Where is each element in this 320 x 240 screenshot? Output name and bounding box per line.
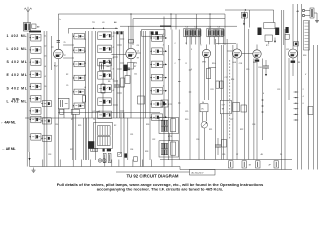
pilot lamp LP1 bbox=[98, 159, 102, 163]
ground symbol left end bbox=[32, 168, 36, 173]
wire bus x233 bbox=[232, 45, 234, 160]
svg-text:L3: L3 bbox=[84, 63, 86, 65]
wire bus x55 bbox=[54, 62, 56, 167]
svg-text:3: 3 bbox=[191, 49, 192, 51]
switch wiper arrow 6 bbox=[163, 103, 168, 105]
wire bus x262 bbox=[262, 59, 264, 141]
wire bus x289 bbox=[288, 58, 290, 100]
node tick x179 1 bbox=[178, 59, 180, 61]
switch S1 section 4 bbox=[29, 71, 41, 78]
svg-text:R27: R27 bbox=[70, 149, 73, 151]
switch wiper arrow 2 bbox=[163, 50, 168, 52]
svg-text:C25: C25 bbox=[185, 111, 188, 113]
IF transformer T3 secondary bbox=[161, 150, 168, 155]
svg-text:2: 2 bbox=[163, 75, 164, 77]
svg-text:C8: C8 bbox=[137, 45, 139, 47]
wire V2 cathode down bbox=[130, 59, 132, 118]
wire V1 cathode down bbox=[57, 59, 59, 167]
wire trimmer drops group2 bbox=[209, 37, 211, 45]
svg-text:R9: R9 bbox=[137, 58, 139, 60]
capacitor C20 bbox=[215, 138, 221, 155]
smoothing choke dark box bbox=[88, 141, 94, 149]
svg-text:R16: R16 bbox=[259, 67, 262, 69]
wire bus x47 bbox=[46, 31, 48, 167]
small component x285 bbox=[285, 27, 289, 39]
svg-text:4: 4 bbox=[113, 58, 114, 60]
switch S2 section 4 bbox=[73, 75, 85, 81]
wire bus x164 bbox=[163, 17, 165, 167]
svg-text:← 4AF ML: ← 4AF ML bbox=[1, 121, 16, 125]
svg-text:L1: L1 bbox=[84, 39, 86, 41]
capacitor resistor pair bbox=[216, 81, 223, 88]
mains dropper box bbox=[58, 98, 69, 109]
svg-text:C23: C23 bbox=[277, 89, 280, 91]
switch S2 section 1 bbox=[73, 34, 85, 40]
wire V3 down b bbox=[208, 57, 210, 100]
valve V4 double-diode-triode bbox=[232, 49, 241, 58]
switch S4 section 5 bbox=[150, 88, 163, 95]
wire V2 left stub bbox=[111, 54, 125, 56]
aerial coil L1 bbox=[24, 23, 37, 32]
fuse box bbox=[71, 110, 80, 115]
switch S1 section 3 bbox=[29, 59, 41, 66]
wire V3 down a bbox=[204, 57, 206, 100]
switch S1 section 5 bbox=[29, 83, 41, 90]
caption rule bbox=[116, 171, 190, 173]
svg-text:C27: C27 bbox=[230, 119, 233, 121]
switch S1b lower section 1 bbox=[41, 101, 51, 107]
resistor R5 under V2 bbox=[121, 78, 125, 87]
coupling box a bbox=[128, 63, 134, 70]
wire bus x244 bbox=[244, 12, 246, 160]
switch S2 section 3 bbox=[73, 61, 85, 67]
svg-text:FC2: FC2 bbox=[54, 66, 58, 68]
svg-text:4B ML: 4B ML bbox=[12, 97, 20, 101]
small box on earth bus bbox=[134, 157, 138, 161]
component right edge bbox=[308, 107, 313, 115]
oscillator coil L8 bbox=[100, 63, 112, 71]
svg-text:R3: R3 bbox=[298, 62, 300, 64]
wire V1 left stub bbox=[51, 46, 53, 48]
node tick x190 2 bbox=[189, 91, 191, 93]
svg-text:TH4: TH4 bbox=[134, 63, 138, 65]
switch S3 section 7 bbox=[98, 111, 112, 119]
capacitor C10 under V2 bbox=[124, 68, 130, 76]
component box near C20 bbox=[222, 140, 227, 148]
svg-text:4: 4 bbox=[113, 47, 114, 49]
wire left HT drop bbox=[57, 14, 59, 49]
small box right of OP b bbox=[241, 105, 247, 112]
valve V3 VP4 IF amplifier bbox=[202, 49, 210, 57]
wire top right riser x250 bbox=[249, 10, 251, 28]
valve V6 rectifier bbox=[289, 49, 298, 58]
pilot lamp LP2 bbox=[103, 159, 107, 163]
svg-text:C18: C18 bbox=[239, 63, 242, 65]
svg-text:accompanying the receiver. The: accompanying the receiver. The I.F. circ… bbox=[97, 186, 223, 191]
aerial terminal cluster bbox=[302, 8, 317, 18]
wire bus x44 bbox=[43, 31, 45, 167]
node tick x179 2 bbox=[178, 80, 180, 82]
IF transformer T2 primary bbox=[161, 120, 168, 125]
wire T2 drop bbox=[164, 107, 166, 118]
svg-text:Pen: Pen bbox=[253, 62, 256, 64]
component x82 bbox=[83, 96, 86, 103]
svg-text:C6: C6 bbox=[44, 86, 46, 88]
IF transformer T2 secondary bbox=[161, 126, 168, 131]
heater tap tick 4 bbox=[294, 108, 299, 109]
svg-text:IFT3: IFT3 bbox=[168, 136, 172, 138]
resistor under V3 bbox=[206, 69, 210, 79]
wire V5 down bbox=[256, 58, 258, 159]
svg-text:2: 2 bbox=[163, 34, 164, 36]
wire gang x120 bbox=[119, 31, 121, 118]
grid cap V1 bbox=[57, 41, 60, 43]
switch S4 section 3 bbox=[150, 61, 163, 68]
svg-text:4: 4 bbox=[113, 68, 114, 70]
voltage label box bbox=[190, 169, 216, 175]
capacitor between buses 3 bbox=[256, 161, 261, 168]
svg-text:S 402 ML: S 402 ML bbox=[7, 60, 28, 64]
mains transformer T4 primary bbox=[98, 126, 111, 136]
wire top bus drop x171 bbox=[170, 14, 172, 30]
earth bus left ground drop bbox=[28, 152, 30, 167]
capacitor C15 cluster bbox=[241, 13, 247, 21]
svg-text:C2: C2 bbox=[44, 46, 46, 48]
wire top bus drop x225 bbox=[224, 14, 226, 45]
svg-text:4: 4 bbox=[263, 93, 264, 95]
wire bank3 left bus bbox=[95, 31, 97, 160]
dark mark right of switch bbox=[124, 153, 127, 157]
switch S2 section 5 bbox=[73, 89, 85, 95]
wire bus x285 bbox=[284, 29, 286, 170]
svg-text:5: 5 bbox=[191, 69, 192, 71]
wire bus x88 bbox=[87, 31, 89, 160]
svg-text:O.P.: O.P. bbox=[222, 104, 226, 106]
ballast resistor a bbox=[103, 153, 106, 162]
svg-text:F1: F1 bbox=[71, 119, 73, 121]
earth bus left bbox=[30, 166, 181, 168]
IF transformer can T3 outline bbox=[159, 141, 179, 157]
wire bus x179 bbox=[178, 30, 180, 160]
wire V4 top bbox=[236, 44, 238, 49]
node tick x179 3 bbox=[178, 102, 180, 104]
gang trimmer blob b bbox=[120, 31, 122, 34]
volume control potentiometer bbox=[201, 122, 207, 128]
wire top bus drop x176 bbox=[175, 14, 177, 30]
heater tap tick 1 bbox=[294, 91, 299, 92]
switch S3 section 2 bbox=[98, 45, 112, 53]
wire OT riser bbox=[221, 45, 223, 101]
svg-text:L5: L5 bbox=[84, 87, 86, 89]
wire V1 grid link upper bbox=[63, 44, 74, 46]
coupling box b bbox=[125, 76, 130, 84]
gang ticks bbox=[113, 32, 118, 34]
switch wiper arrow 4 bbox=[163, 77, 168, 79]
wire bus x140 bbox=[140, 31, 142, 167]
earth bus right bbox=[180, 167, 292, 170]
wire pickup rail bbox=[68, 28, 118, 34]
wire V6 down bbox=[292, 58, 294, 76]
svg-text:VP4: VP4 bbox=[202, 62, 206, 64]
svg-text:6: 6 bbox=[303, 103, 304, 105]
trimmer group 2 bbox=[207, 28, 224, 36]
switch S1 lower section 2 bbox=[29, 134, 41, 141]
wire gang x114 bbox=[113, 31, 115, 118]
wire bus x281 bbox=[281, 10, 283, 170]
svg-text:C1: C1 bbox=[44, 36, 46, 38]
wire bank1 left bus bbox=[28, 33, 30, 152]
switch S3 section 4 bbox=[98, 72, 112, 80]
tap ticks x262 bbox=[261, 99, 263, 100]
wire bus x83 bbox=[83, 118, 85, 160]
svg-text:2: 2 bbox=[163, 65, 164, 67]
AVC dashed line bbox=[229, 60, 231, 140]
svg-text:R28: R28 bbox=[145, 151, 148, 153]
component between rails bbox=[138, 96, 145, 104]
heater tap tick 5 bbox=[294, 114, 299, 115]
capacitor between buses 1 bbox=[229, 161, 234, 168]
valve V5 Pen output bbox=[253, 50, 261, 58]
wire bus x51 bbox=[50, 36, 52, 70]
svg-text:C4: C4 bbox=[137, 51, 139, 53]
ground arrow under IF can bbox=[274, 38, 276, 43]
ground at AE cluster bbox=[315, 18, 319, 23]
wire bus x215 bbox=[215, 39, 217, 160]
antenna AE bbox=[25, 7, 32, 23]
wire V1 anode link lower bbox=[63, 57, 74, 59]
wire gang x117 bbox=[116, 31, 118, 118]
svg-text:S 402 ML: S 402 ML bbox=[7, 86, 28, 90]
output transformer box bbox=[220, 100, 231, 114]
heater tap tick 2 bbox=[294, 97, 299, 98]
wire bus x317 bbox=[316, 45, 318, 170]
switch S4 section 2 bbox=[150, 48, 163, 55]
resistor R6 bbox=[101, 84, 105, 93]
wire V4-V5 link bbox=[242, 53, 253, 55]
svg-text:25: 25 bbox=[64, 42, 66, 44]
switch S1 section 7 bbox=[29, 108, 41, 115]
svg-text:50: 50 bbox=[202, 102, 204, 104]
svg-text:C3: C3 bbox=[44, 56, 46, 58]
wire thick stub bbox=[160, 25, 171, 27]
wire bus x73 bbox=[72, 114, 74, 166]
svg-text:← AE ML: ← AE ML bbox=[2, 147, 15, 151]
wire trimmer drops group1 bbox=[186, 37, 188, 45]
svg-text:R2: R2 bbox=[66, 74, 68, 76]
wire V6 up bbox=[292, 4, 294, 49]
wire bus x308 bbox=[308, 21, 310, 170]
svg-text:R21: R21 bbox=[209, 129, 212, 131]
dark anode mark V6 bbox=[291, 61, 296, 63]
switch S1b lower section 3 bbox=[41, 135, 51, 141]
svg-text:7: 7 bbox=[201, 45, 202, 47]
node tick x190 1 bbox=[189, 69, 191, 71]
switch S4 section 4 bbox=[150, 74, 163, 81]
IF transformer can T2 outline bbox=[159, 118, 179, 134]
wire bus x223 bbox=[223, 45, 225, 160]
wire bus x76 bbox=[75, 114, 77, 160]
wire OT down bbox=[221, 114, 223, 160]
wire V3 top bbox=[206, 45, 208, 50]
wire HT top bus bbox=[58, 13, 225, 15]
wire bus x199 bbox=[198, 30, 200, 160]
wire bus x172 bbox=[171, 30, 173, 167]
capacitor between buses 4 bbox=[274, 161, 279, 168]
wire top right riser x283 bbox=[283, 10, 285, 45]
mains transformer T4 secondary bbox=[98, 137, 111, 146]
capacitor between buses 2 bbox=[242, 161, 247, 168]
svg-text:L4: L4 bbox=[44, 66, 46, 68]
wire T2-T3 link bbox=[169, 134, 171, 141]
svg-text:T1: T1 bbox=[93, 119, 95, 121]
switch S1b lower section 2 bbox=[41, 118, 51, 124]
wire V1 anode top bbox=[57, 44, 59, 50]
svg-text:L5: L5 bbox=[44, 76, 46, 78]
valve V2 triode-hexode bbox=[126, 48, 136, 58]
wire gram box top bbox=[133, 19, 225, 45]
wire bus x313 bbox=[312, 45, 314, 170]
switch S2 section 6 bbox=[73, 103, 85, 109]
wire bus x92 bbox=[91, 31, 93, 118]
wire V4 down bbox=[236, 58, 238, 159]
wire top bus drop x210 bbox=[209, 14, 211, 30]
ballast resistor b bbox=[108, 153, 111, 162]
wire bus x145 bbox=[145, 31, 147, 118]
svg-text:C33: C33 bbox=[48, 154, 51, 156]
resistor under dropper bbox=[60, 109, 64, 114]
svg-text:L2: L2 bbox=[84, 51, 86, 53]
lamp cross bbox=[99, 159, 101, 161]
node dot top right bus bbox=[245, 9, 246, 10]
wire bus x85 bbox=[84, 31, 86, 160]
svg-text:2: 2 bbox=[163, 55, 164, 57]
dark terminal blob a bbox=[103, 149, 105, 152]
dark bar atop bank1 bbox=[29, 31, 41, 33]
valve V1 FC2 frequency-changer bbox=[54, 49, 64, 59]
svg-text:C26: C26 bbox=[196, 139, 199, 141]
switch S4 section 7 bbox=[150, 114, 163, 121]
svg-text:4: 4 bbox=[113, 36, 114, 38]
wire dropper drop bbox=[63, 109, 65, 118]
switch S2 section 2 bbox=[73, 47, 85, 53]
svg-text:R7: R7 bbox=[134, 66, 136, 68]
switch S4 section 1 bbox=[150, 35, 163, 42]
dark marks under V2 bbox=[124, 65, 128, 71]
smoothing choke hatch box bbox=[91, 148, 98, 151]
component designator speckles bbox=[44, 34, 307, 156]
svg-text:C31: C31 bbox=[130, 134, 133, 136]
wire V3 right stub bbox=[209, 67, 216, 69]
node junction dots on HT bus bbox=[130, 13, 210, 14]
wire bank2 left bus bbox=[72, 33, 74, 160]
grid leak box bbox=[200, 102, 208, 112]
svg-text:IFT2: IFT2 bbox=[168, 104, 172, 106]
svg-text:2: 2 bbox=[163, 44, 164, 46]
IF transformer T3 primary bbox=[161, 143, 168, 148]
svg-text:4: 4 bbox=[113, 90, 114, 92]
switch wiper arrow 1 bbox=[163, 37, 168, 39]
on-off switch Q bbox=[118, 153, 122, 157]
svg-text:(L2 lead): (L2 lead) bbox=[93, 111, 101, 113]
wire osc bottom bbox=[102, 93, 104, 118]
wire bus x248 bbox=[248, 29, 250, 160]
svg-text:R26: R26 bbox=[146, 124, 149, 126]
switch S1 section 2 bbox=[29, 47, 41, 54]
svg-text:C9: C9 bbox=[66, 85, 68, 87]
oscillator trimmer box bbox=[142, 30, 166, 37]
dark anode mark V5 bbox=[255, 60, 259, 62]
svg-text:2: 2 bbox=[163, 86, 164, 88]
switch S3 section 5 bbox=[98, 85, 112, 93]
wire top bus drop x196 bbox=[196, 14, 198, 30]
wire gang x123 bbox=[122, 31, 124, 118]
svg-text:2: 2 bbox=[303, 89, 304, 91]
wire bus x190 bbox=[189, 30, 191, 160]
wire V2 second feed bbox=[128, 26, 130, 49]
wire bus x143 bbox=[142, 31, 144, 167]
svg-text:E 402 ML: E 402 ML bbox=[7, 73, 28, 77]
wire riser x273 bbox=[273, 10, 275, 23]
dark terminal blob b bbox=[107, 149, 111, 152]
resistor in T3 can bbox=[171, 142, 176, 155]
trimmer group 1 bbox=[184, 28, 201, 36]
earth risers bbox=[42, 160, 44, 167]
wire bus x121 bbox=[120, 113, 122, 153]
wire grid tie bbox=[216, 43, 236, 45]
svg-text:L4: L4 bbox=[84, 75, 86, 77]
wire padder bottom bbox=[116, 93, 118, 118]
wire bus x301 bbox=[300, 4, 302, 170]
mains transformer outline bbox=[94, 123, 113, 149]
wire osc link bbox=[102, 71, 104, 85]
switch wiper arrow 3 bbox=[163, 64, 168, 66]
svg-text:AC 200-250 V: AC 200-250 V bbox=[192, 172, 205, 175]
svg-text:C28: C28 bbox=[252, 124, 255, 126]
svg-text:C19: C19 bbox=[246, 69, 249, 71]
wire bus x253 bbox=[253, 59, 255, 160]
wire V2 right stub bbox=[136, 52, 140, 54]
switch S3 section 6 bbox=[98, 98, 112, 106]
HT negative bus bbox=[160, 159, 292, 161]
heater tap tick 3 bbox=[294, 103, 299, 104]
resistor box above T2 bbox=[161, 100, 168, 107]
svg-text:R25: R25 bbox=[78, 125, 81, 127]
svg-text:S2: S2 bbox=[114, 125, 116, 127]
svg-text:C34: C34 bbox=[130, 149, 133, 151]
wire bus x297 bbox=[297, 4, 299, 170]
svg-text:1 402 ML: 1 402 ML bbox=[7, 34, 28, 38]
wire bank4 left bus bbox=[149, 31, 151, 160]
svg-text:R22: R22 bbox=[240, 129, 243, 131]
wire V2 top feed bbox=[130, 14, 132, 48]
svg-text:R14: R14 bbox=[231, 79, 234, 81]
svg-text:4: 4 bbox=[303, 96, 304, 98]
svg-text:R6: R6 bbox=[108, 81, 110, 83]
wire lower left rail bbox=[26, 33, 28, 167]
svg-text:R20: R20 bbox=[185, 119, 188, 121]
grid stopper above V2 bbox=[129, 40, 134, 44]
small box right of OP a bbox=[233, 103, 240, 112]
switch S1 section 6 bbox=[29, 95, 41, 102]
wire L2 lead line bbox=[58, 112, 160, 114]
IF can cluster x257-280 bbox=[258, 23, 280, 45]
wire bus x168 bbox=[168, 45, 170, 160]
wire V5 top bbox=[256, 45, 258, 50]
wire vc drops bbox=[203, 112, 207, 160]
switch S1 section 1 bbox=[29, 34, 41, 41]
heater tap tick 6 bbox=[294, 119, 299, 120]
svg-text:C21: C21 bbox=[286, 49, 289, 51]
